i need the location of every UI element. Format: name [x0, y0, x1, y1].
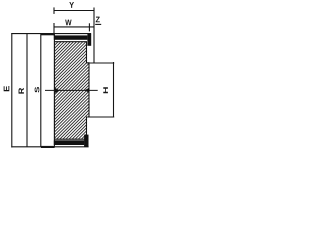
- side view: face line (dim R): [26, 34, 28, 147]
- right extension line (Y/Z): [93, 8, 95, 64]
- side view: flange OD top edge: [11, 33, 91, 35]
- label W: [65, 20, 71, 26]
- side view: left face line (dim E): [11, 33, 13, 147]
- label Z: [96, 17, 100, 23]
- W right tick: [88, 23, 90, 31]
- label H: [103, 87, 108, 93]
- label E: [4, 86, 10, 91]
- label S: [35, 87, 40, 93]
- centerline: [45, 89, 98, 91]
- Y left tick: [53, 7, 55, 13]
- label Y: [69, 2, 74, 8]
- W left extension tick: [53, 23, 55, 36]
- flange plate bottom: [84, 135, 88, 147]
- flange plate top: [87, 34, 91, 46]
- pulley cross-section body (hatched) with hub step: [55, 42, 90, 140]
- H bottom extension line: [87, 116, 115, 118]
- dimension line Y: [54, 10, 94, 12]
- label R: [19, 88, 24, 94]
- toothed rim (bottom, solid): [54, 140, 85, 145]
- side view: face line (dim S): [40, 34, 42, 147]
- thick rim edge top: [41, 33, 55, 35]
- centerline arrow right: [85, 88, 89, 93]
- H top extension line: [87, 62, 115, 64]
- thick rim edge bottom: [41, 146, 55, 148]
- side view: flange OD bottom edge: [11, 146, 88, 148]
- centerline arrow left: [55, 88, 60, 93]
- Z underline: [95, 23, 101, 25]
- toothed rim (top, solid): [54, 35, 88, 39]
- dimension line W: [54, 26, 94, 28]
- section left face line: [53, 34, 55, 147]
- dimension line H: [113, 62, 115, 118]
